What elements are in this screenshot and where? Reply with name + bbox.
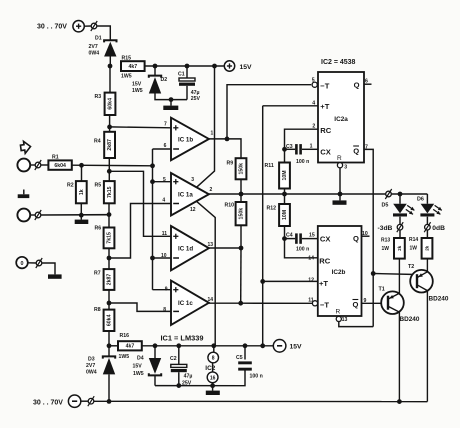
svg-text:2k: 2k	[397, 245, 402, 250]
node: R4/R5 tap	[107, 169, 112, 174]
node: C2 on sub rail	[176, 383, 181, 388]
svg-text:100 n: 100 n	[296, 159, 309, 165]
pin 9 wire IC2b Qbar to T1	[362, 298, 388, 304]
wire R7/R8 tap to IC1c pin8	[109, 303, 171, 311]
wire bus to IC1a pin5	[153, 181, 172, 183]
op-amp IC1d	[161, 226, 213, 270]
zener D4 15V 1W5	[133, 346, 162, 386]
node: IC1c output	[238, 301, 243, 306]
svg-text:+T: +T	[320, 102, 329, 111]
svg-text:15V: 15V	[290, 344, 303, 351]
ground under R2	[75, 215, 89, 224]
svg-text:2k: 2k	[425, 245, 430, 250]
svg-text:10: 10	[161, 253, 167, 259]
ground under input 0	[48, 274, 62, 278]
led D5	[382, 194, 415, 217]
node: mid rail ground	[338, 192, 343, 197]
capacitor C5 100n	[236, 346, 263, 380]
label IC1 = LM339	[161, 334, 204, 343]
node: T1 emitter on bottom rail	[397, 399, 402, 404]
svg-text:IC1 = LM339: IC1 = LM339	[161, 334, 204, 343]
resistor R7 2k87	[94, 269, 114, 290]
wire + supply to D1	[84, 26, 110, 40]
wire input 0 to ground	[42, 263, 55, 274]
wire -15V rail	[142, 345, 273, 347]
svg-text:5: 5	[312, 78, 315, 84]
pin 4 wire IC2a +T	[263, 101, 318, 107]
pin 5 bubble IC2a -T	[312, 78, 318, 88]
resistor R4 2k87	[94, 132, 115, 158]
signal bus wire	[152, 149, 154, 290]
svg-text:1W5: 1W5	[119, 354, 130, 360]
svg-text:7k15: 7k15	[107, 186, 113, 198]
pin 10 stub IC2b Q	[362, 231, 370, 237]
svg-text:3: 3	[344, 164, 347, 170]
node: signal bus / R1	[150, 163, 155, 168]
op-amp IC1c	[163, 281, 213, 325]
svg-text:2V7: 2V7	[89, 44, 98, 50]
wire R6/R7 tap to IC1a pin4	[109, 204, 171, 259]
svg-text:R11: R11	[265, 163, 274, 169]
pin 11 bubble IC2b -T	[308, 297, 317, 306]
svg-text:RC: RC	[320, 126, 331, 135]
svg-text:D6: D6	[417, 196, 424, 202]
svg-text:R15: R15	[122, 55, 132, 61]
svg-text:R2: R2	[67, 182, 74, 188]
led D6	[417, 194, 442, 217]
svg-text:IC2 = 4538: IC2 = 4538	[321, 59, 356, 66]
zener D2 15V 1W5	[132, 76, 167, 95]
wire IC1d output	[209, 247, 241, 249]
svg-text:BD240: BD240	[400, 316, 420, 323]
svg-text:R8: R8	[94, 307, 101, 313]
svg-text:R14: R14	[409, 237, 418, 243]
svg-text:R1: R1	[52, 155, 59, 161]
svg-text:IC 1a: IC 1a	[178, 192, 193, 199]
connector -3dB	[378, 217, 404, 233]
svg-text:CX: CX	[320, 234, 331, 243]
svg-text:100 n: 100 n	[296, 246, 309, 252]
node: R9/R10/IC1a output	[239, 192, 244, 197]
svg-text:R: R	[336, 308, 341, 315]
node: signal bus to pin5	[150, 179, 155, 184]
svg-text:15V: 15V	[132, 82, 142, 88]
resistor R2 1k	[67, 165, 87, 215]
timer IC2b box	[318, 226, 362, 316]
node: D2 on +15V rail	[153, 64, 158, 69]
connector input 1	[30, 160, 48, 170]
capacitor C2 47u 25V	[170, 346, 192, 387]
connector 0dB	[424, 217, 445, 233]
wire left divider rail	[109, 66, 110, 402]
svg-text:4: 4	[162, 197, 165, 203]
wire bus to IC1b pin6	[153, 148, 172, 150]
resistor R14 1W	[409, 230, 432, 259]
svg-text:11: 11	[162, 231, 168, 237]
terminal -30..70V supply	[33, 395, 81, 407]
svg-text:−T: −T	[320, 301, 329, 310]
svg-text:30 . . 70V: 30 . . 70V	[37, 24, 67, 31]
node: trigger bus to IC2b pin12	[260, 279, 265, 284]
resistor R13 1W	[381, 230, 405, 259]
svg-text:2V7: 2V7	[86, 363, 95, 369]
svg-text:5: 5	[163, 177, 166, 183]
resistor R6 7k15	[95, 226, 115, 249]
node: R7/R8 tap	[107, 301, 112, 306]
svg-text:1W5: 1W5	[121, 73, 132, 79]
svg-text:3: 3	[191, 177, 194, 183]
svg-text:−T: −T	[320, 81, 329, 90]
svg-text:BD240: BD240	[429, 295, 449, 302]
node: C1 on +15V rail	[185, 64, 190, 69]
node: trigger bus to -15V rail	[260, 343, 265, 348]
trigger bus wire	[262, 106, 264, 346]
svg-text:60k4: 60k4	[107, 314, 113, 326]
node: R8/R16/D3 junction	[107, 343, 112, 348]
svg-text:IC 1d: IC 1d	[178, 246, 193, 253]
ground symbol above input 2	[18, 190, 30, 199]
wire IC1c output to IC2b -T	[209, 302, 312, 304]
transistor T2 BD240	[408, 259, 449, 402]
node: C5 on -15V rail	[243, 343, 248, 348]
connector LED feed	[385, 189, 427, 199]
resistor R11 10M	[265, 149, 290, 194]
svg-text:1W: 1W	[410, 246, 418, 252]
svg-text:IC2: IC2	[205, 365, 215, 372]
svg-text:15V: 15V	[133, 364, 143, 370]
svg-text:15: 15	[309, 233, 315, 239]
svg-text:R16: R16	[120, 333, 130, 339]
svg-text:R6: R6	[95, 226, 102, 232]
pin 6 stub IC2a Q	[364, 78, 372, 84]
label IC2 = 4538	[321, 59, 356, 66]
svg-text:9: 9	[364, 298, 367, 304]
pin 2 wire IC2a RC	[285, 124, 319, 150]
pin 13 bubble IC2b R	[336, 308, 348, 322]
svg-text:1W5: 1W5	[132, 88, 143, 94]
svg-text:10: 10	[362, 231, 368, 237]
input arrow symbol	[20, 140, 31, 153]
svg-text:-3dB: -3dB	[378, 225, 393, 232]
svg-text:16: 16	[210, 376, 216, 382]
svg-text:2: 2	[312, 124, 315, 130]
svg-text:0W4: 0W4	[86, 370, 97, 376]
svg-text:D4: D4	[137, 355, 144, 361]
terminal +30..70V supply	[37, 21, 84, 32]
pin 14 wire IC2b RC	[285, 239, 318, 262]
resistor R1 6k04	[48, 155, 71, 170]
resistor R15 4k7 1W5	[121, 55, 145, 79]
connector input 0	[28, 258, 42, 268]
node: R1/R2 junction	[79, 163, 84, 168]
connector J2 (- supply plug)	[88, 396, 94, 406]
node: T2 base junction	[371, 271, 376, 276]
mid rail wire	[209, 193, 386, 195]
svg-text:RC: RC	[319, 256, 330, 265]
svg-text:2k87: 2k87	[107, 274, 113, 286]
svg-text:7k15: 7k15	[107, 232, 113, 244]
svg-text:C1: C1	[178, 71, 185, 77]
svg-text:R7: R7	[94, 271, 101, 277]
resistor R10 150k	[225, 194, 247, 248]
svg-text:D3: D3	[88, 356, 95, 362]
pin 7 wire IC2a Qbar	[364, 144, 373, 326]
node: D3 on bottom rail	[107, 399, 112, 404]
svg-text:R12: R12	[267, 205, 277, 211]
wire IC1b output to IC2a -T	[227, 85, 311, 139]
svg-text:150k: 150k	[239, 163, 245, 175]
svg-text:13: 13	[342, 317, 348, 323]
svg-text:100 n: 100 n	[250, 373, 263, 379]
pin 8 IC2 supply	[208, 346, 219, 363]
svg-text:10M: 10M	[282, 170, 288, 180]
svg-text:0dB: 0dB	[432, 225, 445, 232]
svg-text:1k: 1k	[79, 189, 85, 195]
wire IC1d to IC1c output tie	[240, 248, 242, 303]
svg-text:IC2b: IC2b	[332, 269, 346, 276]
node: IC1b output	[225, 137, 230, 142]
node: C2 on -15V rail	[176, 343, 181, 348]
svg-text:4k7: 4k7	[128, 64, 137, 70]
svg-text:10M: 10M	[282, 210, 288, 220]
capacitor C1 47u 25V	[178, 66, 200, 102]
svg-text:Q: Q	[353, 234, 359, 243]
pin 12 wire IC2b +T	[263, 277, 318, 283]
svg-text:9: 9	[165, 286, 168, 292]
transistor T1 BD240	[379, 259, 420, 402]
svg-text:2: 2	[210, 187, 213, 193]
svg-text:0W4: 0W4	[89, 51, 100, 57]
svg-text:7: 7	[164, 122, 167, 128]
svg-text:150k: 150k	[239, 208, 245, 220]
svg-text:4k7: 4k7	[126, 344, 135, 350]
svg-text:2k87: 2k87	[107, 139, 113, 151]
capacitor C4 100n	[282, 233, 318, 253]
node: R5/R6/input junction	[107, 212, 112, 217]
svg-text:8: 8	[163, 307, 166, 313]
terminal -15V	[273, 340, 302, 353]
svg-text:D5: D5	[382, 202, 389, 208]
svg-text:1: 1	[310, 144, 313, 150]
connector input 2	[30, 210, 41, 220]
svg-text:R10: R10	[225, 203, 235, 209]
zener D1 2V7 0W4	[89, 35, 117, 56]
label IC2 supply	[205, 365, 215, 372]
wire R1 to signal bus	[72, 164, 153, 167]
svg-text:C4: C4	[286, 233, 293, 239]
op-amp IC1a	[162, 173, 212, 216]
svg-text:25V: 25V	[191, 96, 201, 102]
resistor R8 60k4	[94, 307, 114, 331]
svg-text:R4: R4	[94, 138, 101, 144]
svg-text:D2: D2	[161, 77, 168, 83]
node: IC1 Vcc drop on +15V rail	[212, 64, 217, 69]
wire bus to IC1c pin9	[153, 289, 172, 291]
node: IC1d output / R10	[239, 246, 244, 251]
svg-text:6: 6	[365, 78, 368, 84]
wire D2 bottom	[155, 94, 187, 100]
node: R3/R4 tap	[107, 125, 112, 130]
svg-text:R: R	[337, 155, 342, 162]
resistor R12 10M	[267, 194, 290, 239]
node: D4 on -15V rail	[153, 343, 158, 348]
svg-text:T2: T2	[408, 264, 414, 270]
wire T2 base	[373, 274, 416, 275]
wire mid-supply sub rail	[155, 371, 245, 386]
svg-text:CX: CX	[320, 147, 331, 156]
connector J1 (+ supply plug)	[91, 21, 97, 31]
svg-text:8: 8	[212, 356, 215, 362]
svg-text:14: 14	[308, 255, 314, 261]
svg-text:6: 6	[164, 143, 167, 149]
wire R4/R5 tap to IC1d pin11	[109, 171, 171, 236]
svg-text:T1: T1	[379, 287, 385, 293]
svg-text:4: 4	[312, 101, 315, 107]
resistor R3 60k4	[95, 93, 116, 115]
svg-text:1W5: 1W5	[133, 371, 144, 377]
svg-text:30 . . 70V: 30 . . 70V	[33, 399, 63, 406]
svg-text:C5: C5	[236, 355, 243, 361]
svg-text:6k04: 6k04	[54, 163, 66, 169]
svg-text:IC 1b: IC 1b	[178, 136, 193, 143]
wire IC1 Vee pin12 riser	[197, 201, 216, 345]
svg-text:47µ: 47µ	[191, 90, 200, 96]
svg-text:60k4: 60k4	[108, 98, 114, 110]
svg-text:12: 12	[190, 207, 196, 213]
svg-text:1: 1	[211, 131, 214, 137]
wire bottom rail	[81, 400, 428, 402]
wire D1 to node	[109, 57, 111, 67]
wire IC1 Vcc pin3 riser	[197, 66, 215, 187]
svg-text:R9: R9	[227, 160, 234, 166]
wire input 2 to divider	[41, 214, 109, 216]
svg-text:Q: Q	[353, 300, 359, 309]
pin 16 IC2 supply	[207, 363, 218, 386]
input socket 2	[17, 209, 30, 222]
zener D3 2V7 0W4	[86, 356, 115, 375]
ground under IC2 pin16	[206, 386, 220, 395]
svg-text:12: 12	[308, 277, 314, 283]
svg-text:0: 0	[21, 261, 24, 267]
svg-text:R5: R5	[95, 182, 102, 188]
node: D5/D6 anode junction	[398, 192, 403, 197]
svg-text:1W: 1W	[382, 246, 390, 252]
wire +15V rail	[145, 65, 224, 67]
op-amp IC1b	[164, 118, 214, 161]
svg-text:Q: Q	[354, 80, 360, 89]
wire IC2b R to Qbar-a rail	[339, 322, 373, 327]
node: D2/C1 ground tie	[169, 97, 174, 102]
terminal +15V	[224, 61, 252, 71]
resistor R9 150k	[227, 158, 247, 194]
timer IC2a box	[318, 72, 364, 163]
wire tap to IC1b pin7	[110, 126, 171, 129]
resistor R16 4k7 1W5	[109, 333, 142, 360]
node: R2 ground junction	[79, 213, 84, 218]
svg-text:D1: D1	[95, 35, 102, 41]
node: IC2 pin8 on -15V rail	[211, 343, 216, 348]
svg-text:14: 14	[208, 297, 214, 303]
wire IC1b output	[209, 139, 241, 158]
svg-text:R13: R13	[381, 237, 390, 243]
node: signal bus to pin10	[150, 256, 155, 261]
svg-text:R3: R3	[95, 94, 102, 100]
wire IC2a R to mid rail	[339, 168, 341, 194]
input socket 0 (chassis)	[16, 257, 28, 269]
wire bus to IC1d pin10	[153, 257, 172, 259]
node: D1/R15/R3 junction	[108, 64, 113, 69]
svg-text:15V: 15V	[240, 64, 253, 71]
svg-text:Q: Q	[353, 147, 359, 156]
input socket 1	[17, 159, 30, 172]
svg-text:+T: +T	[319, 279, 328, 288]
svg-text:IC2a: IC2a	[334, 116, 348, 123]
resistor R5 7k15	[95, 181, 115, 203]
ground on mid rail	[333, 194, 347, 205]
pin 3 bubble IC2a R	[337, 155, 347, 170]
svg-text:11: 11	[308, 297, 314, 303]
svg-text:47µ: 47µ	[184, 374, 193, 380]
node: R6/R7 tap	[107, 256, 112, 261]
node: R11/R12 on mid rail	[282, 192, 287, 197]
ground under D2/C1	[163, 100, 178, 110]
node: IC2 pin16 on mid-supply rail	[210, 383, 215, 388]
svg-text:C2: C2	[170, 356, 177, 362]
svg-text:C3: C3	[286, 144, 293, 150]
wire rail to D2	[154, 66, 156, 76]
svg-text:IC 1c: IC 1c	[178, 300, 193, 307]
svg-text:7: 7	[365, 144, 368, 150]
capacitor C3 100n	[282, 144, 318, 165]
